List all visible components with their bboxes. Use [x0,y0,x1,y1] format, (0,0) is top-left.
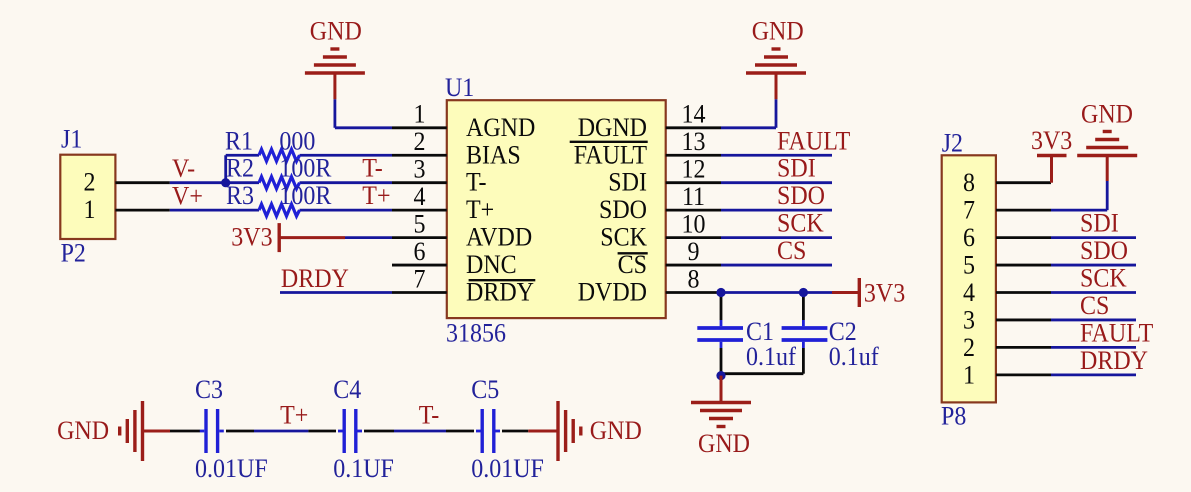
svg-text:DRDY: DRDY [281,264,349,293]
svg-text:0.1UF: 0.1UF [333,454,394,483]
svg-text:10: 10 [682,209,706,238]
svg-text:DRDY: DRDY [466,278,534,307]
svg-text:V-: V- [172,154,195,183]
svg-text:3: 3 [414,155,426,184]
svg-text:FAULT: FAULT [574,140,647,169]
svg-text:C3: C3 [195,375,223,404]
svg-text:7: 7 [963,196,975,225]
svg-text:DRDY: DRDY [1080,346,1148,375]
svg-text:C4: C4 [333,375,361,404]
svg-text:6: 6 [963,223,975,252]
svg-text:5: 5 [963,250,975,279]
svg-text:DNC: DNC [466,250,517,279]
svg-text:DGND: DGND [578,113,647,142]
svg-text:P8: P8 [941,402,966,431]
svg-text:J1: J1 [61,125,82,154]
svg-text:31856: 31856 [446,319,506,348]
svg-text:C5: C5 [471,375,499,404]
svg-text:3: 3 [963,305,975,334]
svg-text:BIAS: BIAS [466,140,521,169]
svg-text:SCK: SCK [777,209,824,238]
svg-text:SDO: SDO [599,195,647,224]
svg-text:T+: T+ [466,195,494,224]
svg-text:GND: GND [590,416,642,445]
svg-text:8: 8 [688,264,700,293]
svg-text:0.1uf: 0.1uf [829,342,879,371]
svg-text:R3: R3 [226,181,254,210]
svg-text:FAULT: FAULT [1080,318,1153,347]
svg-text:V+: V+ [172,182,203,211]
svg-text:0.01UF: 0.01UF [471,454,544,483]
svg-text:7: 7 [414,264,426,293]
svg-text:U1: U1 [445,73,474,102]
svg-text:J2: J2 [942,129,963,158]
svg-text:T-: T- [466,168,487,197]
svg-text:SDI: SDI [1080,209,1119,238]
svg-text:FAULT: FAULT [777,126,850,155]
svg-text:1: 1 [963,360,975,389]
svg-text:9: 9 [688,237,700,266]
svg-text:SDI: SDI [608,168,647,197]
svg-text:AGND: AGND [466,113,535,142]
svg-text:100R: 100R [279,154,332,183]
svg-text:GND: GND [57,416,109,445]
svg-text:2: 2 [84,168,96,197]
svg-text:2: 2 [963,333,975,362]
svg-text:T-: T- [419,401,440,430]
svg-text:SDO: SDO [777,181,825,210]
svg-text:T-: T- [362,154,383,183]
svg-text:13: 13 [682,127,706,156]
svg-text:P2: P2 [61,239,86,268]
svg-text:4: 4 [963,278,975,307]
svg-text:11: 11 [682,182,705,211]
svg-text:SCK: SCK [1080,264,1127,293]
svg-text:T+: T+ [280,401,308,430]
svg-text:GND: GND [698,429,750,458]
svg-text:6: 6 [414,237,426,266]
svg-text:14: 14 [682,100,706,129]
svg-text:GND: GND [310,17,362,46]
svg-text:0.1uf: 0.1uf [746,342,796,371]
svg-text:5: 5 [414,209,426,238]
svg-text:SDO: SDO [1080,236,1128,265]
svg-text:R1: R1 [225,126,253,155]
svg-text:100R: 100R [279,181,332,210]
svg-text:DVDD: DVDD [578,278,647,307]
svg-text:4: 4 [414,182,426,211]
svg-text:GND: GND [752,17,804,46]
svg-text:GND: GND [1081,100,1133,129]
svg-text:AVDD: AVDD [466,223,532,252]
svg-text:1: 1 [84,195,96,224]
svg-text:8: 8 [963,168,975,197]
svg-text:CS: CS [777,236,806,265]
svg-text:1: 1 [414,100,426,129]
svg-text:SDI: SDI [777,154,816,183]
svg-text:000: 000 [279,126,315,155]
svg-text:T+: T+ [362,181,390,210]
svg-text:3V3: 3V3 [864,279,905,308]
svg-text:3V3: 3V3 [231,222,272,251]
svg-text:0.01UF: 0.01UF [195,454,268,483]
svg-text:12: 12 [682,155,706,184]
svg-text:R2: R2 [226,154,254,183]
svg-text:2: 2 [414,127,426,156]
svg-text:CS: CS [1080,291,1109,320]
svg-text:3V3: 3V3 [1031,126,1072,155]
svg-text:SCK: SCK [600,223,647,252]
